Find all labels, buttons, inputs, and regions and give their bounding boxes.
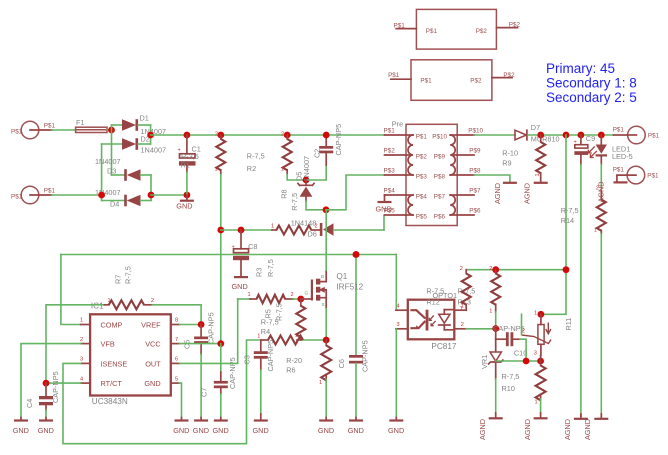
svg-text:+: + bbox=[574, 140, 577, 146]
svg-text:LED-5: LED-5 bbox=[612, 152, 633, 161]
wire ISENSE to bottom rail bbox=[63, 340, 262, 444]
svg-text:2: 2 bbox=[291, 292, 294, 298]
svg-text:R-20: R-20 bbox=[286, 356, 302, 365]
transformer secondary winding PS7-PS6 bbox=[434, 193, 457, 220]
svg-text:P$5: P$5 bbox=[416, 213, 428, 220]
svg-text:2: 2 bbox=[461, 322, 464, 328]
svg-text:1: 1 bbox=[460, 306, 463, 312]
ground GND (VFB) bbox=[13, 418, 29, 436]
wire fuse to AC1 node bbox=[107, 129, 112, 131]
svg-text:2: 2 bbox=[215, 132, 218, 138]
ground AGND (PS8) bbox=[493, 183, 517, 204]
svg-text:P$6: P$6 bbox=[469, 208, 481, 215]
svg-text:Secondary 2: 5: Secondary 2: 5 bbox=[546, 90, 637, 105]
svg-text:AGND: AGND bbox=[523, 419, 532, 440]
wire AC1 vertical bbox=[111, 125, 113, 175]
wire LED1 to R14 bbox=[600, 165, 602, 192]
svg-text:R-7,5: R-7,5 bbox=[561, 206, 579, 215]
svg-text:1: 1 bbox=[271, 224, 274, 230]
ground GND (C4) bbox=[38, 418, 54, 436]
wire VFB to GND (left) bbox=[21, 344, 81, 418]
svg-text:C4: C4 bbox=[25, 399, 34, 408]
node RT/CT / C4 bbox=[43, 380, 50, 387]
svg-text:1: 1 bbox=[535, 173, 541, 176]
wire D1/D2 cathode join bbox=[150, 125, 152, 144]
pin 7 VCC bbox=[171, 337, 180, 344]
wire C9 to AGND bbox=[580, 165, 582, 418]
svg-text:P$1: P$1 bbox=[426, 28, 438, 35]
node zener top bbox=[492, 325, 499, 332]
svg-text:GND: GND bbox=[213, 426, 229, 435]
resistor R14 R-7,5 bbox=[561, 186, 606, 234]
svg-text:AGND: AGND bbox=[563, 419, 572, 440]
resistor R2 R-7,5 bbox=[215, 132, 265, 175]
wire AC1 input to fuse bbox=[52, 129, 76, 131]
node VCC/D6 row tap bbox=[217, 227, 224, 234]
ground GND (C7) bbox=[213, 418, 229, 436]
svg-text:6: 6 bbox=[175, 357, 178, 363]
svg-text:P$1: P$1 bbox=[613, 126, 625, 133]
wire VCC stub bbox=[179, 343, 220, 345]
pin 2 opto bbox=[454, 322, 466, 329]
svg-text:D5: D5 bbox=[295, 172, 304, 181]
ground GND (C3) bbox=[253, 414, 269, 435]
optocoupler OPTO1 PC817 box bbox=[408, 287, 476, 351]
svg-text:GND: GND bbox=[232, 282, 248, 291]
svg-text:P$1: P$1 bbox=[416, 133, 428, 140]
svg-text:AGND: AGND bbox=[522, 183, 531, 204]
trimmer R11 bbox=[522, 311, 552, 362]
node C2 top bbox=[323, 132, 330, 139]
wire GND rail to C1 bbox=[151, 194, 187, 196]
diode D3 1N4007 bbox=[95, 157, 151, 181]
capacitor C5 CAP-NP5 bbox=[194, 325, 208, 355]
node GND-rail left bbox=[148, 192, 155, 199]
svg-text:P$2: P$2 bbox=[384, 148, 396, 155]
svg-text:GND: GND bbox=[388, 426, 404, 435]
wire main DC bus bbox=[151, 134, 385, 136]
svg-text:R6: R6 bbox=[286, 366, 295, 375]
svg-text:1N4007: 1N4007 bbox=[95, 157, 121, 166]
diode D2 1N4007 bbox=[102, 135, 166, 155]
ground GND (C5) bbox=[193, 418, 209, 436]
resistor R10 R-7,5 bbox=[535, 361, 546, 405]
svg-text:2: 2 bbox=[151, 298, 154, 304]
node C1 top bbox=[184, 132, 191, 139]
node C8 top bbox=[238, 227, 245, 234]
wire D3/D4 anode join bbox=[150, 175, 152, 201]
ground AGND (R9) bbox=[522, 183, 547, 204]
ground AGND (C9) bbox=[563, 414, 588, 440]
wire R10 to AGND bbox=[540, 399, 542, 413]
wire COMP line to opto pin4 bbox=[395, 255, 397, 311]
svg-text:R14: R14 bbox=[561, 216, 574, 225]
svg-text:P$1: P$1 bbox=[420, 78, 432, 85]
svg-text:C3: C3 bbox=[243, 355, 252, 364]
pin PS1 (left) bbox=[384, 128, 407, 135]
connector PS1 (output + ) bbox=[613, 126, 660, 144]
svg-text:P$1: P$1 bbox=[44, 188, 56, 195]
wire R6 to GND bbox=[325, 380, 327, 418]
svg-text:R12: R12 bbox=[426, 297, 439, 306]
svg-text:8: 8 bbox=[175, 318, 178, 324]
svg-text:CAP-NP5: CAP-NP5 bbox=[51, 371, 60, 403]
svg-text:R10: R10 bbox=[502, 384, 515, 393]
ground GND (pin5) bbox=[173, 418, 189, 436]
svg-text:S: S bbox=[322, 302, 325, 307]
wire output sense column bbox=[541, 135, 566, 314]
diode D7 MUR810 bbox=[515, 123, 560, 143]
fuse F1 bbox=[76, 118, 107, 132]
wire RT/CT to R7/C4 bbox=[46, 305, 104, 383]
pin 4 opto bbox=[396, 304, 408, 311]
svg-text:D6: D6 bbox=[308, 230, 317, 239]
svg-text:R-7,5: R-7,5 bbox=[124, 266, 133, 284]
svg-text:RT/CT: RT/CT bbox=[101, 379, 123, 388]
svg-text:Secondary 1: 8: Secondary 1: 8 bbox=[546, 76, 637, 91]
svg-text:P$9: P$9 bbox=[434, 153, 446, 160]
svg-text:P$1: P$1 bbox=[388, 72, 400, 79]
opto emission arrows bbox=[429, 316, 435, 326]
svg-text:3: 3 bbox=[80, 357, 83, 363]
svg-text:P$4: P$4 bbox=[384, 188, 396, 195]
svg-text:P$7: P$7 bbox=[434, 193, 446, 200]
node COMP/GND drop bbox=[353, 251, 360, 258]
pin 5 GND bbox=[171, 376, 180, 383]
wire snubber to PS3 bbox=[326, 175, 385, 210]
svg-text:R1: R1 bbox=[181, 161, 190, 170]
pin 3 opto bbox=[396, 322, 408, 329]
ground GND (bridge) bbox=[176, 195, 194, 211]
wire COMP feedback line bbox=[61, 254, 396, 256]
wire D6 row left bbox=[221, 229, 272, 231]
svg-text:R-7,5: R-7,5 bbox=[290, 193, 299, 211]
svg-text:R7: R7 bbox=[114, 275, 123, 284]
pin PS7 (right) bbox=[457, 188, 481, 195]
svg-text:2: 2 bbox=[460, 266, 463, 272]
node C1 minus bbox=[184, 192, 191, 199]
pin 3 ISENSE bbox=[80, 357, 90, 364]
resistor R5 (gate pulldown) bbox=[295, 299, 305, 340]
svg-text:P$1: P$1 bbox=[394, 22, 406, 29]
ground GND (R6) bbox=[318, 418, 334, 436]
resistor R6 R-20 (current sense) bbox=[286, 340, 331, 386]
wire COMP drop bbox=[61, 255, 81, 325]
svg-text:P$2: P$2 bbox=[476, 28, 488, 35]
svg-text:C6: C6 bbox=[337, 359, 346, 368]
svg-text:GND: GND bbox=[193, 426, 209, 435]
svg-text:1: 1 bbox=[534, 311, 537, 317]
wire OUT to R3 column bbox=[179, 299, 237, 363]
ground GND (PS4) bbox=[376, 195, 392, 214]
svg-text:CAP-NP5: CAP-NP5 bbox=[361, 340, 370, 372]
svg-text:1: 1 bbox=[281, 167, 284, 173]
node C9 top bbox=[578, 132, 585, 139]
svg-text:GND: GND bbox=[173, 426, 189, 435]
svg-text:3: 3 bbox=[534, 351, 537, 357]
wire source to sense node bbox=[325, 309, 327, 340]
svg-text:CAP-NP5: CAP-NP5 bbox=[266, 340, 275, 372]
diode D4 1N4007 bbox=[95, 188, 151, 209]
transistor Q1 IRF512 bbox=[301, 270, 364, 308]
svg-text:GND: GND bbox=[176, 202, 192, 211]
pin 1 COMP bbox=[80, 318, 90, 325]
wire D6 to PS5 bbox=[383, 216, 385, 231]
svg-text:GND: GND bbox=[144, 379, 160, 388]
svg-text:ISENSE: ISENSE bbox=[101, 360, 128, 369]
svg-text:IC1: IC1 bbox=[91, 302, 104, 311]
svg-text:P$6: P$6 bbox=[434, 213, 446, 220]
svg-text:G: G bbox=[305, 291, 309, 296]
ground AGND (output) bbox=[597, 181, 628, 202]
capacitor C7 CAP-NP5 bbox=[214, 344, 228, 394]
capacitor C4 CAP-NP5 bbox=[39, 383, 53, 417]
wire R5/R4 to source node bbox=[301, 339, 326, 341]
svg-text:P$7: P$7 bbox=[469, 188, 481, 195]
svg-text:2: 2 bbox=[489, 266, 492, 272]
pin 8 VREF bbox=[171, 318, 180, 325]
svg-text:R2: R2 bbox=[247, 164, 256, 173]
LED1 LED-5 bbox=[588, 135, 632, 165]
svg-text:D3: D3 bbox=[107, 167, 116, 176]
svg-text:VCC: VCC bbox=[145, 340, 160, 349]
node AC1 bbox=[108, 127, 115, 134]
svg-text:R8: R8 bbox=[280, 189, 289, 198]
node LED1 top bbox=[598, 132, 605, 139]
svg-text:GND: GND bbox=[376, 205, 392, 214]
svg-text:CAP-NP5: CAP-NP5 bbox=[206, 312, 215, 344]
capacitor C8 (electrolytic) bbox=[232, 230, 258, 277]
node R9 top bbox=[537, 132, 544, 139]
svg-text:VFB: VFB bbox=[101, 340, 115, 349]
svg-text:C8: C8 bbox=[248, 242, 257, 251]
svg-text:AGND: AGND bbox=[583, 419, 592, 440]
svg-text:P$3: P$3 bbox=[416, 173, 428, 180]
svg-text:1: 1 bbox=[319, 380, 322, 386]
pin PS2 (left) bbox=[384, 148, 407, 155]
connector block PS1/PS2 (top jumper 2) bbox=[388, 60, 515, 101]
wire wiper green stub bbox=[521, 314, 523, 334]
resistor R7 R-7,5 bbox=[104, 298, 154, 309]
capacitor C1 (with overlapping resistor R1 R-3,5) bbox=[178, 135, 201, 195]
ground GND (opto) bbox=[388, 418, 404, 436]
resistor (series with D6, unnamed) bbox=[271, 224, 320, 235]
wire opto pin2 to zener node bbox=[466, 328, 496, 330]
svg-text:VREF: VREF bbox=[141, 320, 161, 329]
ground AGND (VR1) bbox=[478, 413, 503, 440]
svg-text:AGND: AGND bbox=[597, 181, 606, 202]
capacitor C10 CAP-NP5 (horizontal) bbox=[496, 329, 528, 358]
svg-text:R9: R9 bbox=[502, 158, 511, 167]
node DC+ bbox=[147, 132, 154, 139]
resistor R12 R-7,5 bbox=[460, 266, 471, 312]
capacitor C9 (electrolytic output) bbox=[574, 134, 596, 165]
svg-text:IRF512: IRF512 bbox=[336, 282, 363, 291]
svg-text:C9: C9 bbox=[586, 134, 595, 143]
svg-text:CAP-NP5: CAP-NP5 bbox=[334, 124, 343, 156]
resistor R3 R-7,5 (gate) bbox=[238, 292, 301, 303]
IC U1 UC3843N box bbox=[90, 302, 171, 406]
wire node to C2 bottom bbox=[306, 165, 326, 180]
svg-text:+: + bbox=[232, 245, 235, 251]
transformer Pre (box) bbox=[392, 119, 457, 225]
svg-text:GND: GND bbox=[318, 426, 334, 435]
node source/sense bbox=[323, 337, 330, 344]
svg-text:F1: F1 bbox=[76, 118, 85, 127]
svg-text:1N4148: 1N4148 bbox=[291, 219, 317, 228]
pin 6 OUT bbox=[171, 357, 180, 364]
ground AGND (R14) bbox=[583, 414, 608, 440]
svg-text:4: 4 bbox=[80, 376, 83, 382]
svg-text:2: 2 bbox=[281, 132, 284, 138]
svg-text:CAP-NP5: CAP-NP5 bbox=[228, 357, 237, 389]
node trimmer top bbox=[538, 311, 545, 318]
wire PS10 to D7 bbox=[474, 134, 515, 136]
node VCC / C7 bbox=[217, 340, 224, 347]
svg-text:5: 5 bbox=[175, 376, 178, 382]
svg-text:GND: GND bbox=[253, 426, 269, 435]
svg-text:P$10: P$10 bbox=[432, 133, 447, 140]
pin 1 opto bbox=[454, 304, 466, 311]
svg-text:1N4007: 1N4007 bbox=[141, 145, 167, 154]
svg-text:1: 1 bbox=[594, 228, 597, 234]
svg-text:OUT: OUT bbox=[145, 360, 161, 369]
svg-text:1: 1 bbox=[535, 399, 538, 405]
svg-text:R4: R4 bbox=[261, 327, 270, 336]
svg-text:D7: D7 bbox=[531, 123, 540, 132]
svg-text:C10: C10 bbox=[514, 348, 527, 357]
node R2 top bbox=[217, 132, 224, 139]
ground GND (C8) bbox=[232, 277, 249, 291]
wire divider rail bbox=[496, 360, 541, 362]
wire R13 to zener node bbox=[495, 312, 497, 329]
diode D1 1N4007 bbox=[112, 113, 167, 136]
wire drain to snubber node bbox=[325, 210, 327, 270]
pin PS6 (right) bbox=[457, 208, 481, 215]
resistor R4 R-7,5 (sense filter) bbox=[257, 317, 303, 344]
wire zener to AGND bbox=[495, 379, 497, 413]
wire VREF stub bbox=[179, 324, 201, 326]
svg-text:P$1: P$1 bbox=[11, 128, 23, 135]
svg-text:1: 1 bbox=[489, 308, 492, 314]
pin PS5 (left) bbox=[384, 208, 407, 215]
wire opto pin3 to GND bbox=[395, 329, 397, 418]
wire C7 to GND bbox=[220, 394, 222, 418]
svg-text:GND: GND bbox=[38, 426, 54, 435]
node output column bbox=[563, 132, 570, 139]
svg-text:R-10: R-10 bbox=[502, 148, 518, 157]
node C6 top bbox=[353, 251, 360, 258]
svg-text:P$2: P$2 bbox=[470, 78, 482, 85]
node R8 top bbox=[284, 132, 291, 139]
svg-text:R3: R3 bbox=[255, 268, 264, 277]
svg-text:2: 2 bbox=[80, 337, 83, 343]
node drain/snubber bbox=[323, 206, 330, 213]
svg-text:AGND: AGND bbox=[493, 183, 502, 204]
transformer secondary winding PS10-PS8 bbox=[432, 133, 457, 180]
node AC2 bbox=[98, 192, 105, 199]
svg-text:P$1: P$1 bbox=[648, 133, 660, 140]
svg-text:C7: C7 bbox=[200, 388, 209, 397]
wire pin5 to GND bbox=[179, 383, 181, 417]
svg-text:P$1: P$1 bbox=[44, 123, 56, 130]
wire R8 bottom to snubber node bbox=[287, 175, 306, 181]
diode D6 1N4148 bbox=[308, 223, 385, 239]
svg-text:P$2: P$2 bbox=[509, 22, 521, 29]
svg-text:1: 1 bbox=[215, 167, 218, 173]
pin PS4 (left) bbox=[384, 188, 407, 195]
svg-text:1: 1 bbox=[80, 318, 83, 324]
svg-text:D4: D4 bbox=[110, 199, 119, 208]
transformer primary winding PS1-PS3 bbox=[406, 133, 427, 180]
capacitor C6 CAP-NP5 bbox=[349, 255, 363, 418]
pin PS8 (right) bbox=[457, 168, 481, 175]
svg-text:P$9: P$9 bbox=[469, 148, 481, 155]
svg-text:P$10: P$10 bbox=[468, 128, 483, 135]
wire R12/R13 feed bbox=[466, 269, 566, 271]
wire R2 bottom to VCC column bbox=[220, 175, 222, 344]
pin PS3 (left) bbox=[384, 168, 407, 175]
node VREF / C5 bbox=[198, 321, 205, 328]
svg-text:P$3: P$3 bbox=[384, 168, 396, 175]
resistor R9 R-10 bbox=[502, 135, 545, 182]
svg-text:3: 3 bbox=[397, 322, 400, 328]
svg-text:R-7,5: R-7,5 bbox=[502, 372, 520, 381]
wire AC2: PS1 to D2/D4 bbox=[52, 144, 102, 201]
opto LED side graphic bbox=[410, 310, 428, 331]
connector PS1 (output - ) bbox=[613, 166, 659, 184]
svg-text:P$1: P$1 bbox=[384, 128, 396, 135]
svg-text:GND: GND bbox=[348, 426, 364, 435]
svg-text:Q1: Q1 bbox=[336, 272, 347, 281]
svg-text:CAP-NP5: CAP-NP5 bbox=[493, 324, 525, 333]
wire C10 to divider rail bbox=[520, 339, 526, 361]
svg-text:PC817: PC817 bbox=[431, 342, 456, 351]
resistor R13 R-7,5 bbox=[489, 266, 500, 315]
svg-text:2: 2 bbox=[295, 333, 298, 339]
ground GND (C6) bbox=[348, 418, 364, 436]
pin 2 VFB bbox=[80, 337, 90, 344]
wire PS8 to AGND bbox=[474, 175, 510, 182]
pin PS10 (right) bbox=[457, 128, 483, 135]
svg-text:COMP: COMP bbox=[101, 320, 123, 329]
svg-text:R11: R11 bbox=[564, 318, 573, 331]
node trimmer bottom bbox=[537, 358, 544, 365]
connector block PS1/PS2 (top jumper 1) bbox=[394, 9, 521, 49]
svg-text:C2: C2 bbox=[313, 149, 322, 158]
node gate bbox=[297, 296, 304, 303]
svg-text:4: 4 bbox=[397, 304, 400, 310]
wire R14 to AGND bbox=[600, 234, 602, 418]
node R13 top bbox=[492, 266, 499, 273]
pin PS9 (right) bbox=[457, 148, 481, 155]
transformer aux winding PS4-PS5 bbox=[406, 193, 427, 220]
svg-text:Primary: 45: Primary: 45 bbox=[546, 61, 615, 76]
opto phototransistor graphic bbox=[439, 310, 453, 330]
svg-text:P$1: P$1 bbox=[647, 173, 659, 180]
node wiper rail bbox=[523, 358, 530, 365]
svg-text:1: 1 bbox=[108, 298, 111, 304]
diode D5 (clamp, pointing up) bbox=[298, 180, 314, 201]
svg-text:AGND: AGND bbox=[478, 419, 487, 440]
zener VR1 bbox=[489, 339, 503, 379]
wire D7 to output bus bbox=[528, 134, 614, 136]
node column tap bbox=[563, 266, 570, 273]
svg-text:P$8: P$8 bbox=[469, 168, 481, 175]
svg-text:P$8: P$8 bbox=[434, 173, 446, 180]
capacitor C2 CAP-NP5 bbox=[319, 135, 333, 165]
svg-text:R-7,5: R-7,5 bbox=[266, 259, 275, 277]
